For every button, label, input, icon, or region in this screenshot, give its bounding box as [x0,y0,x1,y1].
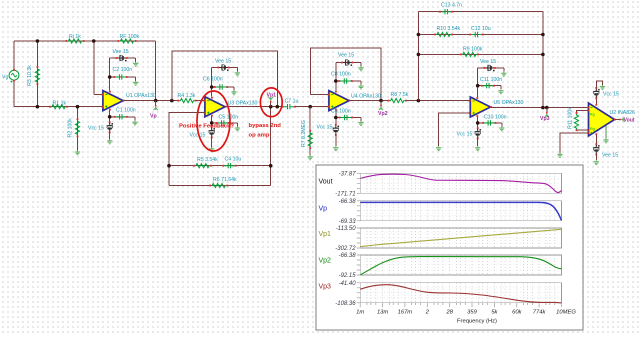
ground Vee U4 [358,66,363,70]
svg-text:Vp3: Vp3 [319,284,332,291]
annotation ellipse positive feedback [197,91,230,151]
ground Vcc U3 [209,147,214,151]
capacitor C7 1u [282,104,296,109]
svg-text:Vout: Vout [624,118,635,124]
ground REF U2 [603,138,608,142]
junction [379,99,383,103]
svg-text:-302.72: -302.72 [335,246,356,252]
svg-text:C6 100n: C6 100n [203,77,223,83]
wire [211,136,213,148]
resistor Ri 1k [66,39,85,43]
svg-text:Vcc 15: Vcc 15 [190,132,206,138]
junction [417,99,421,103]
svg-text:Rg: Rg [590,112,595,116]
wire U3 output row [225,106,283,108]
ground R7 [308,155,313,159]
wire R9 row [418,53,543,55]
wire [109,131,111,140]
wire C11 row [478,85,501,87]
capacitor C9 100n [339,115,353,120]
svg-text:C11 100n: C11 100n [480,77,502,83]
svg-text:C7 1u: C7 1u [285,98,299,104]
svg-text:R10 3.54k: R10 3.54k [437,26,461,32]
capacitor C4 10u [222,163,236,168]
ground Vcc U5 [475,146,480,150]
battery Vcc 15 U4 [333,124,339,136]
svg-text:-171.71: -171.71 [335,191,355,197]
wire [335,133,337,146]
svg-text:-37.87: -37.87 [339,171,357,177]
ground Vee U3 [235,71,240,75]
wire U1 V- pin [109,111,111,124]
junction [417,53,421,57]
svg-text:C12 10u: C12 10u [471,26,491,32]
node Vout flag [615,117,625,121]
wire U2 REF pin [605,126,607,139]
svg-text:Vp: Vp [150,114,157,120]
wire C5 row [212,122,238,124]
junction [92,39,96,43]
ground C11 [498,89,503,93]
wire [500,86,502,90]
svg-text:Vee 15: Vee 15 [602,152,618,158]
battery Vee 15 U2 [593,143,599,155]
wire lower rail [14,106,103,108]
svg-text:Vp2: Vp2 [319,258,332,265]
wire feedback box stage 3 [311,48,381,101]
capacitor C11 100n [481,83,495,88]
wire [360,63,362,67]
svg-text:U1 OPAx130: U1 OPAx130 [126,93,156,99]
wire [503,68,505,72]
svg-text:Vout: Vout [319,179,333,186]
wire C10 row [478,122,502,124]
trace Vp [360,202,561,220]
wire U4 V+ pin [335,63,337,91]
plot frame Vp [319,199,562,225]
ground Vcc U1 [107,139,112,143]
wire C9 row [336,117,361,119]
svg-text:C9 100n: C9 100n [331,108,351,114]
ground C2 [133,81,138,85]
wire R2 branch [77,107,79,151]
svg-text:U3 OPAx130: U3 OPAx130 [228,100,258,106]
op-amp U3 OPAx130 [204,97,227,117]
plot frame Vout [319,171,562,197]
svg-text:op amp: op amp [249,133,270,139]
svg-text:1m: 1m [356,310,364,316]
wire R11 lower lead [577,129,589,131]
wire R11 upper lead [577,110,589,113]
junction [476,121,480,125]
svg-text:R5 3.54k: R5 3.54k [197,157,218,163]
ground Vee U1 [133,62,138,66]
junction [269,164,273,168]
wire [134,117,136,121]
junction [417,33,421,37]
wire R3 branch [36,41,38,107]
wire U2 V+ pin [595,96,597,104]
resistor R7 8.2MEG [308,130,312,149]
svg-text:Vp1: Vp1 [267,92,277,98]
ground C10 [499,126,504,130]
resistor R9 100k [460,52,479,56]
wire R8 to U5 [406,100,471,102]
wire [595,153,597,161]
svg-text:C2 100n: C2 100n [113,67,133,73]
resistor R3 10.3k [35,66,39,85]
svg-text:C5 100n: C5 100n [219,115,239,121]
svg-text:-92.15: -92.15 [339,273,357,279]
wire Vee row U4 [336,62,361,64]
svg-text:Vcc 15: Vcc 15 [317,124,333,130]
wire [236,68,238,72]
ground R2 [75,150,80,154]
capacitor C1 100n [114,114,128,119]
svg-text:-66.38: -66.38 [339,253,357,259]
ground Vcc U4 [333,146,338,150]
svg-text:Vee 15: Vee 15 [113,49,129,55]
node Vp2 flag [379,101,383,111]
capacitor C8 100n [338,78,352,83]
battery Vee 15 U3 [218,64,230,71]
junction [334,116,338,120]
svg-text:C1 100n: C1 100n [116,108,136,114]
wire C8 row [336,80,361,82]
wire U5 V- pin [477,117,479,130]
wire U2 V+ to ground [596,81,602,90]
svg-text:Ri 1k: Ri 1k [69,34,81,40]
instrumentation amp U2 INA826 [587,103,616,136]
plot x axis ticks and labels [356,303,576,325]
wire right vertical stage2 [270,107,272,186]
junction [308,105,312,109]
svg-text:C10 100n: C10 100n [484,114,507,120]
svg-text:bypass 2nd: bypass 2nd [249,123,282,129]
junction [108,75,112,79]
resistor R5 3.54k [193,164,212,168]
plot frame Vp3 [319,281,562,307]
svg-text:R11 100k: R11 100k [568,107,574,129]
resistor RF 100k [118,39,137,43]
voltage source Vg [9,69,19,83]
svg-text:-108.36: -108.36 [335,301,356,307]
wire C7 to U4 [295,106,329,108]
junction [76,105,80,109]
svg-text:28: 28 [445,310,453,316]
wire U2 inverting input to ground [560,133,588,153]
svg-text:359: 359 [467,310,477,316]
plot panel window [316,165,583,330]
svg-text:Vp1: Vp1 [319,231,332,238]
op-amp U1 OPAx130 [102,91,125,111]
svg-text:U5 OPAx130: U5 OPAx130 [494,100,524,106]
resistor R11 100k [574,112,578,131]
wire to U1 upper input [93,41,95,94]
wire Vee row U5 [478,67,504,69]
ground Vee U2 [594,160,599,164]
svg-text:10MEG: 10MEG [556,310,576,316]
wire U1 V+ pin [109,58,111,91]
battery Vcc 15 U3 [209,126,215,138]
trace Vp2 [360,257,561,275]
svg-text:R8 7.5k: R8 7.5k [391,92,409,98]
svg-text:Positive Feedback?: Positive Feedback? [179,124,234,130]
wire Vee row U3 [212,67,238,69]
wire to U4 upper input [311,93,329,95]
svg-text:-66.38: -66.38 [339,199,357,205]
battery Vcc 15 U5 [475,127,481,139]
svg-text:C8 100n: C8 100n [331,71,351,77]
svg-text:U2 INA826: U2 INA826 [610,110,635,116]
svg-text:Vee 15: Vee 15 [480,59,496,65]
junction [545,106,549,110]
ground C1 [132,121,137,125]
resistor R8 7.5k [388,99,407,103]
wire U3 V- pin [211,117,213,129]
svg-text:Vp: Vp [319,205,328,212]
svg-text:Vg: Vg [2,75,8,81]
svg-text:Vcc 15: Vcc 15 [457,131,473,137]
ground Vcc U2 [600,85,605,89]
svg-text:Vp2: Vp2 [378,111,388,117]
trace Vp3 [360,285,561,303]
svg-text:774k: 774k [533,310,547,316]
svg-text:R4 1.3k: R4 1.3k [178,93,196,99]
wire R6 row [169,185,271,187]
ground U5 input [436,146,441,150]
junction [541,53,545,57]
trace Vp1 [360,229,561,246]
svg-text:60k: 60k [512,310,522,316]
svg-text:Vcc 15: Vcc 15 [603,91,619,97]
ground U2 -in [557,153,562,157]
wire U3 lower input loop [169,113,205,186]
node Vp3 flag [545,108,549,118]
wire stage4 right vertical [542,12,544,108]
battery Vee 15 U5 [484,65,496,72]
svg-text:13m: 13m [377,310,388,316]
wire stage4 left vertical [417,12,419,101]
capacitor C5 100n [216,120,230,125]
resistor R6 71.64k [209,183,228,187]
junction [541,106,545,110]
svg-text:Rg: Rg [590,127,595,131]
wire C13 row [418,11,543,13]
battery Vcc 15 U2 [593,87,599,99]
wire [94,93,103,95]
capacitor C12 10u [469,32,483,37]
battery VS2 Vee 15 [116,55,128,62]
svg-text:Frequency (Hz): Frequency (Hz) [457,318,497,324]
ground C6 [231,90,236,94]
svg-text:C13 4.7n: C13 4.7n [441,2,462,8]
resistor R4 1.3k [178,99,197,103]
trace Vout [360,174,561,192]
wire [236,123,238,127]
svg-text:Vee 15: Vee 15 [338,53,354,59]
junction [36,105,40,109]
ground C9 [358,121,363,125]
svg-text:R6 71.64k: R6 71.64k [213,177,237,183]
svg-text:-113.50: -113.50 [336,226,357,232]
wire U4 V- pin [335,111,337,126]
wire C2 row [110,76,136,78]
junction [154,99,158,103]
wire U5 output row to U2 [491,107,587,109]
capacitor C10 100n [482,120,496,125]
capacitor C13 4.7n [439,9,453,14]
junction [541,33,545,37]
svg-text:-69.33: -69.33 [339,219,357,225]
resistor R2 100k [75,118,79,137]
junction [167,164,171,168]
capacitor C6 100n [214,84,228,89]
plot frame Vp2 [319,253,562,279]
svg-text:R2 100k: R2 100k [68,118,74,138]
junction [170,99,174,103]
wire U2 V- pin [595,135,597,146]
ground C5 [235,126,240,130]
svg-text:167m: 167m [398,310,413,316]
wire [360,118,362,122]
svg-text:U4 OPAx130: U4 OPAx130 [351,93,381,99]
resistor R1 1k [49,105,68,109]
annotation ellipse bypass [260,88,282,117]
junction [476,84,480,88]
op-amp U4 OPAx130 [328,91,351,111]
op-amp U5 OPAx130 [469,97,492,117]
wire feedforward box stage 2 [172,51,277,106]
ground Vee U5 [501,72,506,76]
svg-text:Vee 15: Vee 15 [215,59,231,65]
wire C1 row [110,116,135,118]
wire RF to output node [155,41,157,101]
wire R5 C4 row [169,165,271,167]
wire [233,87,235,90]
wire R10 C12 row [418,34,543,36]
junction [36,39,40,43]
node Vp1 flag [269,97,273,107]
wire top rail [14,40,156,42]
svg-text:-41.40: -41.40 [339,281,357,287]
junction [210,85,214,89]
wire Vg bottom [13,80,15,107]
junction [210,121,214,125]
junction [269,105,273,109]
wire Vee row [110,57,136,59]
junction [334,79,338,83]
wire [360,81,362,85]
svg-text:C4 10u: C4 10u [225,156,242,162]
ground C8 [358,85,363,89]
wire R4 to U3 [196,100,205,102]
battery Vee 15 U4 [341,59,353,66]
plot frame Vp1 [319,226,562,252]
svg-text:Vcc 15: Vcc 15 [88,125,104,131]
node Vp flag [154,101,158,111]
junction [276,105,280,109]
svg-text:Vp3: Vp3 [540,116,550,122]
wire U5 V+ pin [477,68,479,97]
capacitor C2 100n [114,74,128,79]
svg-text:R9 100k: R9 100k [463,47,483,53]
svg-text:RF 100k: RF 100k [120,34,140,40]
wire R7 branch [309,107,311,156]
wire [501,123,503,127]
wire U5 lower input to ground [439,113,471,146]
wire Vg top [13,41,15,70]
wire U4 output row [349,100,389,102]
wire U1 output row [123,100,179,102]
wire [135,58,137,62]
svg-text:R7 8.2MEG: R7 8.2MEG [301,120,307,147]
resistor R10 3.54k [434,32,453,36]
wire U3 V+ pin [211,68,213,97]
wire [135,77,137,81]
junction [108,115,112,119]
svg-text:R1 1k: R1 1k [53,100,67,106]
battery VS1 Vcc 15 [107,121,113,133]
wire [477,137,479,147]
wire C6 row [212,86,234,88]
svg-text:R3 10.3k: R3 10.3k [27,65,33,86]
